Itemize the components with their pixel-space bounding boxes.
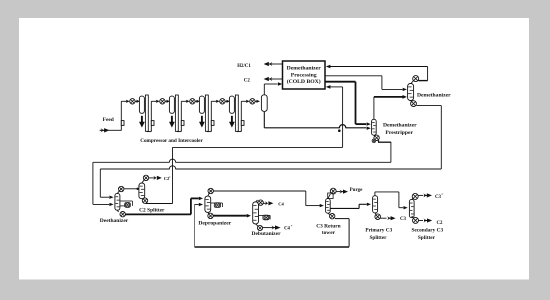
wire riser to compressor K5 xyxy=(240,101,242,120)
intercooler E2 xyxy=(169,96,174,113)
debutanizer side reboiler xyxy=(259,214,271,216)
svg-text:C4: C4 xyxy=(284,227,290,232)
wire depropanizer bottoms to debutanizer (bold) xyxy=(213,215,246,217)
hot-stream arrow into drum D1 xyxy=(141,116,143,123)
deethanizer column T-102 xyxy=(115,193,120,210)
demethanizer condenser xyxy=(413,76,419,82)
svg-text:Primary C3: Primary C3 xyxy=(365,228,392,234)
wire C3 return tower overhead to primary C3 splitter xyxy=(330,207,359,209)
svg-text:C3 Return: C3 Return xyxy=(316,223,340,229)
svg-text:C2: C2 xyxy=(244,78,251,83)
junction dot on C2 splitter feed xyxy=(136,188,138,190)
debutanizer reboiler xyxy=(257,225,262,230)
svg-text:Purge: Purge xyxy=(350,188,364,193)
compressor K4 xyxy=(216,100,219,103)
wire drum D2 bottoms to valve V3 xyxy=(176,130,178,132)
valve/flag V4 xyxy=(210,120,212,131)
wire riser to compressor K4 xyxy=(210,101,212,120)
knockout drum D3 xyxy=(205,95,208,131)
C3 return tower condenser xyxy=(330,188,336,194)
svg-text:Secondary C3: Secondary C3 xyxy=(411,228,443,234)
wire prestripper bottoms to deethanizer (long line A) xyxy=(378,140,380,142)
svg-text:C3: C3 xyxy=(400,217,407,222)
C2 product arrow xyxy=(419,220,424,222)
H2/C1 product wire xyxy=(272,63,283,65)
knockout drum D1 xyxy=(145,95,148,131)
C3 product arrow xyxy=(381,217,387,219)
wire ethane recycle into cold box xyxy=(326,85,331,89)
svg-text:Debutanizer: Debutanizer xyxy=(251,231,281,237)
deethanizer reboiler xyxy=(120,212,125,217)
valve/flag V3 xyxy=(180,120,182,131)
primary C3 splitter T-107 xyxy=(373,196,378,213)
svg-text:Demethanizer: Demethanizer xyxy=(383,122,417,128)
intercooler E1 xyxy=(139,96,144,113)
svg-text:Splitter: Splitter xyxy=(418,235,436,241)
wire compressor discharge to prestripper lower feed xyxy=(263,112,265,128)
svg-text:Deethanizer: Deethanizer xyxy=(100,218,129,224)
C3 return tower T-106 xyxy=(326,199,331,214)
C3= product arrow xyxy=(418,194,423,196)
svg-text:H2/C1: H2/C1 xyxy=(237,64,251,69)
junction dot xyxy=(338,129,341,132)
compressor K1 xyxy=(126,100,129,103)
svg-text:tower: tower xyxy=(322,230,336,236)
svg-text:Demethanizer: Demethanizer xyxy=(287,66,322,72)
secondary C3 splitter T-108 xyxy=(409,199,414,217)
depropanizer reboiler xyxy=(208,213,213,218)
suction drum D5 xyxy=(261,95,267,112)
prestripper overhead wire to demethanizer (bold) xyxy=(373,97,375,119)
debutanizer condenser xyxy=(258,200,263,205)
svg-text:Processing: Processing xyxy=(291,72,317,78)
wire drum D3 bottoms to valve V4 xyxy=(206,130,208,132)
knockout drum D2 xyxy=(175,95,178,131)
deethanizer overhead wire to C2 splitter xyxy=(124,188,139,190)
demethanizer reboiler xyxy=(411,101,417,107)
svg-text:C2: C2 xyxy=(437,221,444,226)
demethanizer column T-100 xyxy=(408,84,414,101)
C4+ product arrow xyxy=(263,227,272,229)
compressor K5 xyxy=(246,100,249,103)
secondary C3 splitter reboiler xyxy=(413,217,419,223)
secondary C3 splitter condenser xyxy=(412,193,418,199)
wire demethanizer condenser to cold box xyxy=(326,65,331,69)
svg-text:+: + xyxy=(291,224,293,228)
intercooler E3 xyxy=(199,96,204,113)
C2 splitter condenser xyxy=(143,175,148,180)
svg-text:Compressor and Intercooler: Compressor and Intercooler xyxy=(140,138,203,144)
wire depropanizer overhead to C3 return tower xyxy=(213,190,305,192)
C2 splitter column T-103 xyxy=(139,183,145,199)
hot-stream arrow into drum D3 xyxy=(201,116,203,123)
svg-text:Prestripper: Prestripper xyxy=(385,130,413,136)
debutanizer column T-105 xyxy=(253,202,259,224)
C2 splitter reboiler xyxy=(142,198,147,203)
svg-text:C4: C4 xyxy=(278,201,284,206)
hot-stream arrow into drum D2 xyxy=(171,116,173,123)
depropanizer condenser xyxy=(208,188,213,193)
hot-stream arrow into drum D4 xyxy=(231,116,233,123)
knockout drum D4 xyxy=(235,95,238,131)
C4 product arrow xyxy=(263,202,267,204)
wire riser to compressor K3 xyxy=(180,101,182,120)
deethanizer side reboiler xyxy=(120,200,132,202)
compressor K2 xyxy=(156,100,159,103)
compressor K3 xyxy=(186,100,189,103)
depropanizer side reboiler xyxy=(211,202,223,204)
wire drum D1 bottoms to valve V2 xyxy=(146,130,148,132)
wire ethane recycle riser from C2 splitter bottoms xyxy=(172,147,174,203)
prestripper reboiler xyxy=(374,135,379,140)
wire demethanizer bottoms to deethanizer (long line B) xyxy=(416,105,441,107)
wire deethanizer bottoms to depropanizer (bold) xyxy=(125,213,190,215)
svg-text:Splitter: Splitter xyxy=(369,235,387,241)
depropanizer column T-104 xyxy=(205,196,211,212)
svg-text:Demethanizer: Demethanizer xyxy=(417,92,451,98)
valve/flag V1 xyxy=(120,120,122,131)
svg-text:=: = xyxy=(441,192,443,196)
wire primary C3 splitter overhead to secondary xyxy=(374,192,376,196)
purge product arrow xyxy=(336,191,340,193)
demethanizer processing cold box U-COLDBOX xyxy=(283,61,326,89)
svg-text:Feed: Feed xyxy=(103,117,114,123)
demethanizer prestripper column T-101 xyxy=(372,119,377,135)
wire riser to compressor K1 xyxy=(120,101,122,120)
wire cold box to prestripper upper feed (bold) xyxy=(325,81,356,83)
wire riser to compressor K2 xyxy=(150,101,152,120)
wire C2 splitter bottoms (ethane recycle) xyxy=(146,203,173,205)
C3 return tower reboiler xyxy=(330,214,335,219)
intercooler E4 xyxy=(229,96,234,113)
feed stream arrow xyxy=(100,129,105,131)
wire C3 return tower bottoms recycle to depropanizer xyxy=(335,218,349,220)
valve/flag V5 xyxy=(240,120,242,131)
primary C3 splitter reboiler xyxy=(375,214,381,220)
wire drum D4 bottoms to valve V5 xyxy=(236,130,238,132)
svg-text:=: = xyxy=(169,175,171,179)
svg-text:Depropanizer: Depropanizer xyxy=(198,220,231,226)
svg-text:C2 Splitter: C2 Splitter xyxy=(139,207,165,213)
valve/flag V2 xyxy=(150,120,152,131)
C2= product arrow xyxy=(149,177,156,179)
deethanizer condenser xyxy=(119,186,124,191)
wire drum D5 to cold box xyxy=(263,84,265,95)
C2 product wire xyxy=(272,78,283,80)
svg-text:(COLD BOX): (COLD BOX) xyxy=(287,78,321,85)
wire cold box to demethanizer upper feed xyxy=(325,75,382,77)
